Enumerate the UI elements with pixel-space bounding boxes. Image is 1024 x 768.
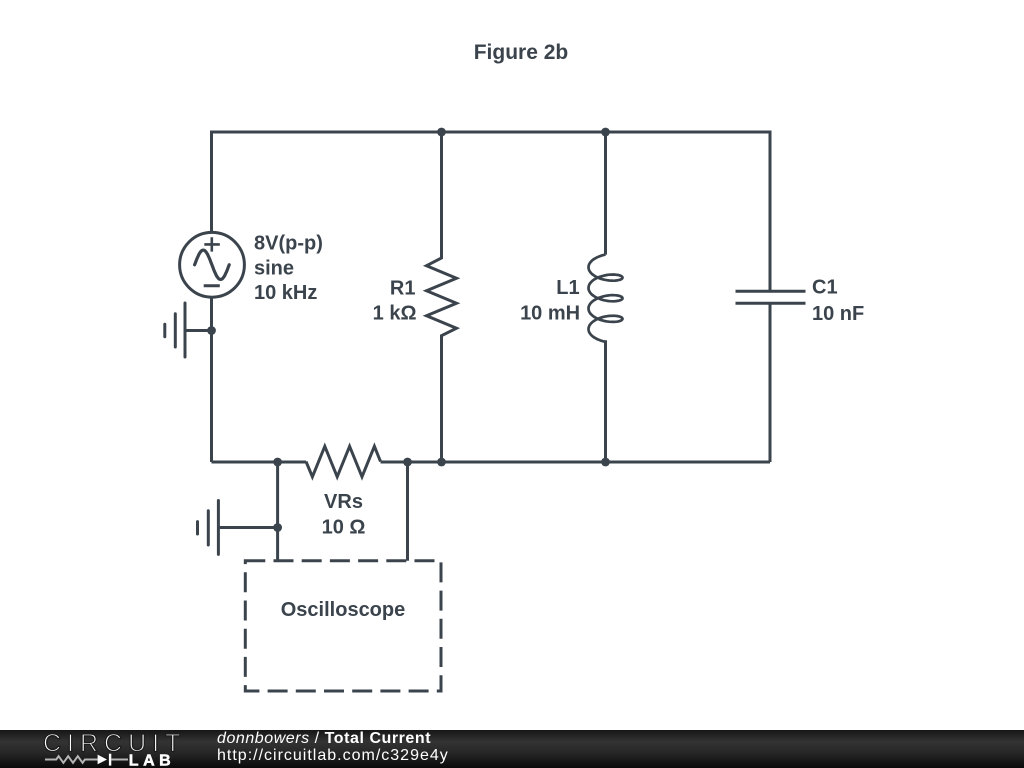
svg-text:L1: L1 xyxy=(556,277,579,299)
svg-text:Oscilloscope: Oscilloscope xyxy=(281,599,406,621)
svg-text:10 Ω: 10 Ω xyxy=(322,517,366,539)
svg-text:10 mH: 10 mH xyxy=(520,303,580,325)
svg-text:VRs: VRs xyxy=(324,491,363,513)
svg-text:10 kHz: 10 kHz xyxy=(254,282,317,304)
svg-text:C1: C1 xyxy=(812,277,838,299)
svg-text:10 nF: 10 nF xyxy=(812,303,864,325)
svg-text:Figure 2b: Figure 2b xyxy=(474,41,569,64)
svg-text:1 kΩ: 1 kΩ xyxy=(373,302,417,324)
svg-text:8V(p-p): 8V(p-p) xyxy=(254,233,323,255)
svg-text:LAB: LAB xyxy=(129,753,175,768)
svg-text:R1: R1 xyxy=(390,277,416,299)
svg-text:sine: sine xyxy=(254,258,294,280)
